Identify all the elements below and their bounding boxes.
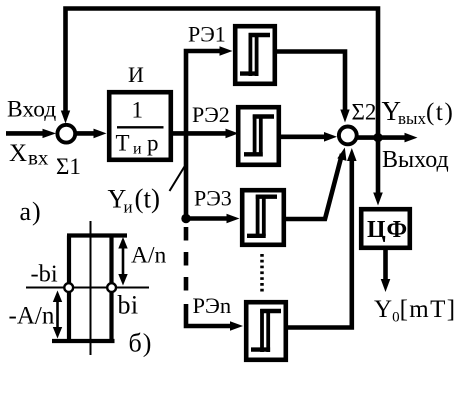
svg-text:И: И	[128, 62, 144, 87]
svg-text:-bi: -bi	[31, 261, 58, 288]
wire: arrowhead of feedback into summator 1 top	[61, 111, 70, 124]
integrator fraction bar	[117, 126, 164, 128]
node: junction dot at RE3 input branch	[181, 214, 190, 223]
graph: hysteresis loop right vertical	[109, 236, 113, 342]
wire: REn output up into summator 2 bottom	[288, 160, 352, 328]
graph: hysteresis loop left vertical	[67, 236, 71, 342]
wire: input arrow into summator 1	[6, 131, 44, 136]
wire: RE2 output into summator 2	[281, 135, 325, 140]
svg-text:Y0[mT]: Y0[mT]	[374, 296, 454, 326]
relay block RE2 (РЭ2)	[238, 107, 279, 165]
relay RE2 hysteresis symbol	[244, 115, 274, 157]
wire: arrowhead into REn	[230, 321, 243, 331]
svg-text:Выход: Выход	[382, 147, 449, 173]
relay block REn (РЭн)	[246, 302, 286, 360]
integrator block U1 (И)	[109, 92, 171, 160]
svg-text:bi: bi	[118, 291, 139, 320]
summing junction S2	[339, 126, 357, 144]
svg-text:РЭn: РЭn	[193, 293, 232, 318]
graph: switching point circle right (bi)	[107, 283, 116, 292]
wire: CF output arrow down	[383, 250, 388, 280]
relay RE3 hysteresis symbol	[247, 195, 277, 236]
wire: dotted continuation between RE3 and REn	[260, 254, 264, 292]
svg-text:Yи(t): Yи(t)	[108, 184, 160, 217]
wire: arrowhead into RE1	[220, 46, 233, 56]
svg-text:Тир: Тир	[116, 131, 159, 158]
wire: summator 1 output to integrator block	[75, 131, 96, 136]
graph: switching point circle left (-bi)	[64, 283, 73, 292]
relay RE1 hysteresis symbol	[240, 33, 270, 76]
graph: hysteresis loop bottom line	[52, 339, 115, 343]
node: junction dot on output line at feedback takeoff	[373, 133, 382, 142]
wire: dashed branch continuation down to REn	[184, 227, 189, 296]
summing junction S1	[57, 125, 75, 143]
svg-text:Σ2: Σ2	[352, 100, 377, 125]
relay block RE1 (РЭ1)	[235, 26, 275, 84]
svg-text:Вход: Вход	[7, 97, 56, 123]
svg-text:РЭ1: РЭ1	[188, 22, 226, 47]
digital filter block CF (ЦФ)	[361, 209, 410, 248]
svg-text:ЦФ: ЦФ	[367, 217, 408, 243]
svg-text:РЭ2: РЭ2	[192, 102, 230, 127]
graph: vertical axis	[90, 221, 92, 355]
svg-text:б): б)	[129, 329, 153, 358]
wire: solid corner to REn input	[186, 304, 231, 326]
graph: double arrow A/n	[122, 240, 125, 282]
wire: branch vertical from RE1 down to RE3 junction	[186, 51, 221, 219]
wire: feedback loop from output junction up over the top to summator 1	[66, 9, 379, 199]
graph: horizontal axis	[26, 287, 149, 289]
svg-text:Xвх: Xвх	[9, 140, 49, 170]
svg-text:1: 1	[132, 98, 144, 123]
wire: integrator output to RE2 input	[173, 131, 227, 136]
wire: summator 2 output arrow	[355, 135, 406, 140]
wire: RE3 input line	[186, 216, 228, 221]
wire: RE3 output diagonal up into summator 2	[285, 154, 342, 219]
relay REn hysteresis symbol	[251, 309, 281, 352]
svg-text:РЭ3: РЭ3	[194, 186, 232, 211]
graph: hysteresis loop top line	[67, 233, 127, 237]
graph: double arrow -A/n	[56, 294, 59, 334]
svg-text:а): а)	[20, 197, 42, 226]
svg-text:Yвых(t): Yвых(t)	[382, 96, 454, 128]
relay block RE3 (РЭ3)	[242, 190, 284, 245]
svg-text:-A/n: -A/n	[9, 303, 55, 330]
wire: RE1 output down into summator 2	[277, 52, 345, 111]
wire: thin pointer from Yи(t) to branch line	[170, 167, 185, 192]
svg-text:Σ1: Σ1	[56, 154, 81, 179]
svg-text:A/n: A/n	[131, 243, 167, 269]
wire: arrowhead of feedback line into CF block	[373, 193, 383, 206]
